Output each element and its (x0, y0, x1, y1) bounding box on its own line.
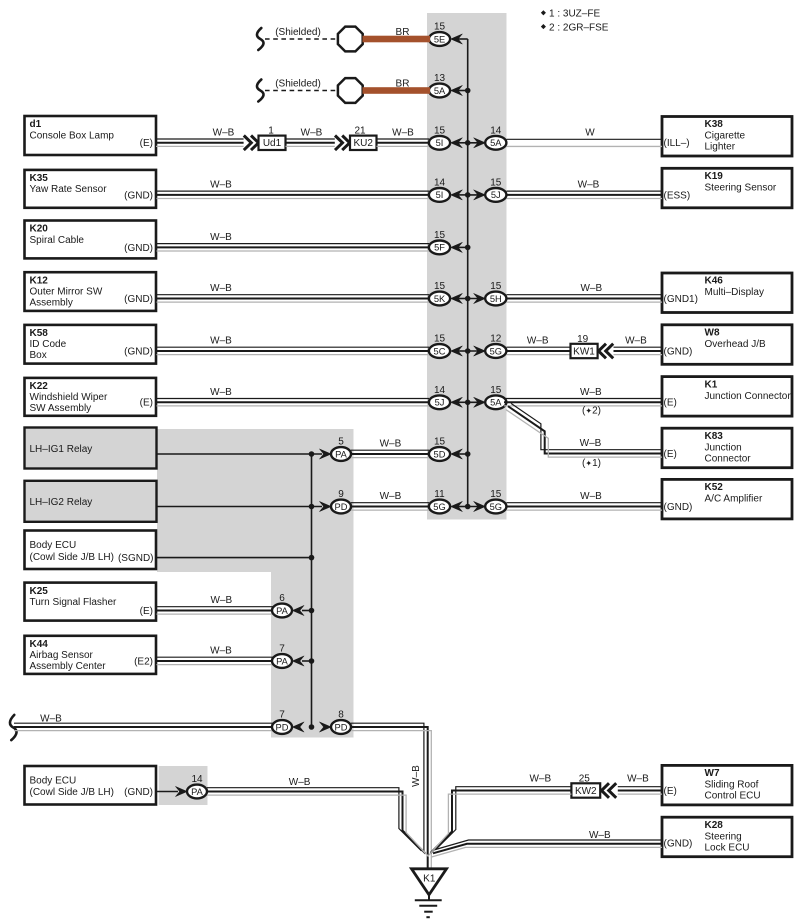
svg-text:(GND): (GND) (124, 787, 153, 798)
svg-text:(ESS): (ESS) (664, 190, 691, 201)
svg-text:Sliding Roof: Sliding Roof (705, 780, 759, 791)
svg-text:14: 14 (434, 385, 446, 396)
svg-text:(E): (E) (140, 398, 153, 409)
svg-text:(✦2): (✦2) (582, 405, 601, 416)
svg-text:K20: K20 (30, 224, 49, 235)
svg-text:Turn Signal Flasher: Turn Signal Flasher (30, 597, 118, 608)
svg-text:(E): (E) (140, 138, 153, 149)
svg-text:5G: 5G (433, 502, 445, 512)
svg-text:Body ECU: Body ECU (30, 540, 77, 551)
svg-text:11: 11 (434, 489, 445, 500)
svg-text:W–B: W–B (210, 387, 232, 398)
svg-text:K38: K38 (705, 119, 724, 130)
svg-text:Assembly: Assembly (30, 298, 73, 309)
svg-text:12: 12 (490, 334, 502, 345)
svg-text:PD: PD (335, 502, 348, 512)
svg-text:K1: K1 (705, 379, 718, 390)
svg-text:(✦1): (✦1) (582, 458, 601, 469)
svg-text:W–B: W–B (527, 336, 549, 347)
svg-text:W–B: W–B (210, 336, 232, 347)
svg-text:9: 9 (338, 489, 344, 500)
svg-text:W–B: W–B (289, 777, 311, 788)
svg-text:15: 15 (434, 230, 446, 241)
svg-text:15: 15 (434, 437, 446, 448)
svg-text:Overhead J/B: Overhead J/B (705, 339, 766, 350)
svg-text:1 : 3UZ–FE: 1 : 3UZ–FE (549, 9, 600, 20)
svg-text:Connector: Connector (705, 453, 752, 464)
svg-text:(E): (E) (140, 606, 153, 617)
svg-text:W–B: W–B (210, 232, 232, 243)
svg-text:15: 15 (490, 281, 502, 292)
svg-text:14: 14 (191, 774, 203, 785)
svg-text:5I: 5I (436, 138, 444, 148)
svg-text:W–B: W–B (380, 439, 402, 450)
svg-text:K58: K58 (30, 328, 49, 339)
svg-text:W–B: W–B (210, 595, 232, 606)
svg-text:14: 14 (490, 126, 502, 137)
svg-text:5K: 5K (434, 294, 446, 304)
svg-text:SW Assembly: SW Assembly (30, 403, 92, 414)
svg-text:5A: 5A (490, 398, 502, 408)
svg-text:K19: K19 (705, 171, 724, 182)
svg-text:7: 7 (279, 644, 285, 655)
svg-text:K28: K28 (705, 820, 724, 831)
svg-text:PA: PA (276, 606, 289, 616)
svg-text:W–B: W–B (529, 774, 551, 785)
svg-text:K22: K22 (30, 381, 49, 392)
svg-text:BR: BR (396, 78, 410, 89)
svg-text:W–B: W–B (580, 387, 602, 398)
svg-text:5G: 5G (490, 502, 502, 512)
svg-text:Multi–Display: Multi–Display (705, 287, 764, 298)
svg-text:13: 13 (434, 73, 446, 84)
svg-text:W–B: W–B (580, 283, 602, 294)
svg-text:K52: K52 (705, 482, 724, 493)
svg-text:15: 15 (490, 385, 502, 396)
svg-text:15: 15 (434, 126, 446, 137)
svg-text:W–B: W–B (213, 127, 235, 138)
svg-text:15: 15 (434, 334, 446, 345)
svg-text:K44: K44 (30, 639, 49, 650)
svg-text:5A: 5A (490, 138, 502, 148)
svg-text:5J: 5J (491, 190, 501, 200)
svg-text:Cigarette: Cigarette (705, 131, 746, 142)
svg-text:21: 21 (354, 126, 366, 137)
svg-text:W–B: W–B (411, 765, 422, 787)
svg-text:Assembly Center: Assembly Center (30, 661, 107, 672)
svg-text:LH–IG1 Relay: LH–IG1 Relay (30, 444, 93, 455)
svg-text:(GND): (GND) (124, 346, 153, 357)
svg-text:5D: 5D (434, 449, 446, 459)
svg-text:(GND): (GND) (124, 190, 153, 201)
svg-text:14: 14 (434, 178, 446, 189)
svg-text:(E): (E) (664, 786, 677, 797)
svg-text:Windshield Wiper: Windshield Wiper (30, 392, 108, 403)
svg-text:Airbag Sensor: Airbag Sensor (30, 650, 94, 661)
svg-text:W–B: W–B (40, 714, 62, 725)
svg-text:KW1: KW1 (573, 346, 595, 357)
svg-text:Box: Box (30, 350, 47, 361)
svg-text:15: 15 (434, 22, 446, 33)
svg-text:5F: 5F (434, 243, 445, 253)
svg-text:Junction Connector: Junction Connector (705, 391, 792, 402)
svg-text:W–B: W–B (380, 491, 402, 502)
svg-text:5C: 5C (434, 346, 446, 356)
svg-text:Junction: Junction (705, 442, 742, 453)
svg-text:5I: 5I (436, 190, 444, 200)
svg-text:W–B: W–B (578, 180, 600, 191)
svg-text:(GND): (GND) (124, 294, 153, 305)
svg-text:(Shielded): (Shielded) (275, 27, 321, 38)
svg-text:K12: K12 (30, 275, 49, 286)
svg-text:5A: 5A (434, 86, 446, 96)
svg-text:W–B: W–B (580, 438, 602, 449)
svg-text:PA: PA (276, 656, 289, 666)
svg-text:Console Box Lamp: Console Box Lamp (30, 130, 115, 141)
svg-text:19: 19 (577, 334, 589, 345)
svg-text:KU2: KU2 (353, 138, 373, 149)
svg-text:PD: PD (276, 722, 289, 732)
svg-text:(GND): (GND) (664, 838, 693, 849)
svg-text:Lighter: Lighter (705, 142, 736, 153)
svg-text:(ILL–): (ILL–) (664, 138, 690, 149)
svg-text:(E): (E) (664, 449, 677, 460)
svg-text:PA: PA (191, 787, 204, 797)
svg-text:(Cowl Side J/B LH): (Cowl Side J/B LH) (30, 787, 114, 798)
svg-text:15: 15 (434, 281, 446, 292)
svg-text:5H: 5H (490, 294, 502, 304)
svg-text:(Shielded): (Shielded) (275, 78, 321, 89)
svg-text:W: W (585, 127, 595, 138)
svg-text:LH–IG2 Relay: LH–IG2 Relay (30, 497, 93, 508)
svg-text:(GND): (GND) (664, 346, 693, 357)
svg-text:Ud1: Ud1 (263, 138, 282, 149)
svg-text:Yaw Rate Sensor: Yaw Rate Sensor (30, 184, 108, 195)
svg-text:K1: K1 (423, 873, 436, 884)
svg-text:6: 6 (279, 593, 285, 604)
svg-text:W–B: W–B (301, 127, 323, 138)
svg-text:W–B: W–B (627, 774, 649, 785)
svg-text:(GND): (GND) (124, 243, 153, 254)
svg-text:2 : 2GR–FSE: 2 : 2GR–FSE (549, 22, 609, 33)
svg-text:W7: W7 (705, 768, 720, 779)
svg-text:5G: 5G (490, 346, 502, 356)
svg-text:(SGND): (SGND) (118, 553, 154, 564)
svg-text:W–B: W–B (589, 830, 611, 841)
svg-text:(E): (E) (664, 398, 677, 409)
svg-text:(GND1): (GND1) (664, 294, 698, 305)
svg-text:W8: W8 (705, 328, 720, 339)
svg-text:5: 5 (338, 437, 344, 448)
svg-text:(E2): (E2) (134, 656, 153, 667)
svg-text:Body ECU: Body ECU (30, 775, 77, 786)
svg-text:(GND): (GND) (664, 502, 693, 513)
svg-text:25: 25 (579, 773, 591, 784)
svg-text:W–B: W–B (210, 283, 232, 294)
svg-text:PA: PA (335, 449, 348, 459)
svg-text:W–B: W–B (210, 646, 232, 657)
svg-text:A/C Amplifier: A/C Amplifier (705, 494, 763, 505)
svg-text:K46: K46 (705, 276, 724, 287)
svg-text:15: 15 (490, 489, 502, 500)
svg-text:ID Code: ID Code (30, 339, 67, 350)
svg-text:d1: d1 (30, 119, 42, 130)
svg-text:W–B: W–B (210, 180, 232, 191)
svg-text:Steering Sensor: Steering Sensor (705, 183, 777, 194)
svg-text:W–B: W–B (625, 336, 647, 347)
svg-text:5J: 5J (435, 398, 445, 408)
svg-text:Spiral Cable: Spiral Cable (30, 235, 85, 246)
svg-text:PD: PD (335, 722, 348, 732)
svg-text:K35: K35 (30, 173, 49, 184)
svg-text:(Cowl Side J/B LH): (Cowl Side J/B LH) (30, 552, 114, 563)
svg-text:Control ECU: Control ECU (705, 791, 761, 802)
svg-text:W–B: W–B (392, 127, 414, 138)
svg-text:8: 8 (338, 710, 344, 721)
svg-text:Steering: Steering (705, 831, 742, 842)
svg-text:7: 7 (279, 710, 285, 721)
svg-text:Lock ECU: Lock ECU (705, 842, 750, 853)
svg-text:KW2: KW2 (575, 786, 597, 797)
svg-text:1: 1 (268, 126, 274, 137)
svg-text:5E: 5E (434, 34, 445, 44)
svg-text:15: 15 (490, 178, 502, 189)
svg-text:K83: K83 (705, 431, 724, 442)
svg-text:Outer Mirror SW: Outer Mirror SW (30, 287, 103, 298)
svg-text:W–B: W–B (580, 491, 602, 502)
svg-text:BR: BR (396, 27, 410, 38)
svg-text:K25: K25 (30, 586, 49, 597)
